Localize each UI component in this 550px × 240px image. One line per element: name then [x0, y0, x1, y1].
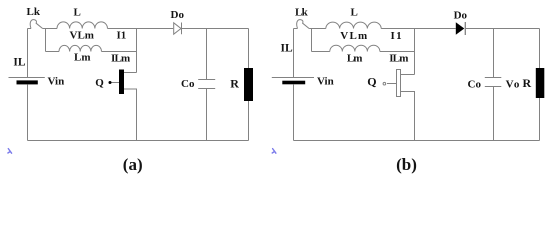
transistor Q gate dot (a): [109, 81, 112, 84]
wire right rail upper (a): [248, 29, 250, 69]
transistor Q drain wire (a): [124, 72, 137, 74]
wire left rail lower (a): [27, 84, 29, 140]
wire bottom rail (b): [294, 140, 540, 142]
inductor Lm (a): [59, 45, 101, 51]
diode Do (b) cathode bar: [464, 22, 466, 35]
battery Vin (a) positive plate: [9, 77, 45, 79]
wire Co branch lower (b): [493, 87, 495, 141]
wire Lm to junction (a): [102, 51, 137, 53]
transistor Q source wire (a): [124, 89, 137, 141]
svg-text:I1: I1: [117, 30, 127, 42]
inductor Lk (a): [30, 20, 42, 29]
svg-text:(b): (b): [396, 155, 417, 174]
svg-text:ILm: ILm: [389, 53, 408, 65]
svg-text:R: R: [230, 76, 239, 90]
transistor Q body outline (b): [397, 70, 401, 97]
inductor L (b): [326, 22, 381, 28]
resistor R (a): [244, 68, 253, 101]
wire Co branch lower (a): [206, 89, 208, 141]
svg-text:Lm: Lm: [74, 52, 91, 64]
svg-text:Q: Q: [367, 75, 376, 89]
wire bottom rail (a): [28, 140, 249, 142]
wire left rail upper (a): [27, 29, 29, 78]
svg-text:R: R: [523, 76, 532, 90]
svg-text:VLm: VLm: [70, 30, 94, 42]
battery Vin (b) positive plate: [272, 77, 314, 79]
wire Co branch upper (a): [206, 29, 208, 80]
svg-text:L: L: [74, 7, 81, 19]
battery Vin (b) negative plate: [282, 81, 305, 85]
transistor Q body bar (a): [119, 70, 124, 95]
wire top-left segment (a): [28, 28, 32, 30]
wire right rail lower (b): [539, 98, 541, 141]
wire Lm to junction (b): [380, 51, 415, 53]
inductor Lk (b): [297, 20, 309, 29]
diode Do (a) cathode bar: [181, 23, 183, 35]
svg-text:VLm: VLm: [340, 30, 368, 42]
wire Lm left segment (a): [46, 51, 60, 53]
svg-text:ILm: ILm: [111, 53, 130, 65]
battery Vin (a) negative plate: [17, 80, 38, 84]
svg-text:L: L: [351, 7, 358, 19]
transistor Q drain wire (b): [401, 74, 415, 76]
wire node branch down (a): [45, 29, 47, 52]
wire L to diode (a): [108, 28, 174, 30]
capacitor Co (a) plates: [198, 80, 215, 89]
blue mark (a): [8, 149, 12, 154]
svg-text:Vo: Vo: [506, 78, 521, 90]
wire right rail lower (a): [248, 101, 250, 141]
resistor R (b): [536, 68, 545, 98]
wire Co branch upper (b): [493, 29, 495, 78]
svg-text:(a): (a): [123, 155, 143, 174]
wire Lm left segment (b): [312, 51, 330, 53]
svg-text:Lm: Lm: [347, 53, 362, 65]
wire junction vertical node I1 (b): [414, 29, 416, 75]
svg-text:IL: IL: [281, 42, 293, 54]
capacitor Co (b) plates: [485, 78, 502, 87]
wire node branch down (b): [311, 29, 313, 52]
wire left rail upper (b): [293, 29, 295, 78]
svg-text:Q: Q: [95, 77, 104, 89]
svg-text:Co: Co: [181, 78, 195, 90]
svg-text:Do: Do: [454, 10, 468, 22]
svg-text:Co: Co: [468, 78, 482, 90]
svg-text:Lk: Lk: [27, 6, 41, 18]
transistor Q source wire (b): [401, 92, 415, 141]
diode Do (b) filled triangle: [456, 22, 465, 34]
svg-text:Vin: Vin: [317, 76, 334, 88]
inductor L (a): [57, 22, 107, 29]
wire left rail lower (b): [293, 84, 295, 140]
inductor Lm (b): [330, 45, 380, 51]
wire diode to corner (b): [466, 28, 540, 30]
wire L to diode (b): [381, 28, 456, 30]
wire Lk to L (a): [43, 28, 57, 30]
svg-text:Lk: Lk: [295, 7, 309, 19]
wire top-left segment (b): [294, 28, 298, 30]
transistor Q gate wire (a): [110, 82, 119, 84]
svg-text:Do: Do: [171, 9, 185, 21]
blue mark (b): [272, 149, 276, 154]
transistor Q gate circle (b): [383, 82, 386, 85]
diode Do (a) triangle: [174, 23, 181, 34]
svg-text:Vin: Vin: [48, 76, 65, 88]
svg-text:IL: IL: [13, 56, 25, 68]
wire Lk to L (b): [309, 28, 326, 30]
wire diode to corner (a): [182, 28, 249, 30]
wire junction vertical node I1 (a): [136, 29, 138, 73]
svg-text:I1: I1: [391, 30, 404, 42]
wire right rail upper (b): [539, 29, 541, 69]
transistor Q gate wire (b): [387, 83, 397, 85]
